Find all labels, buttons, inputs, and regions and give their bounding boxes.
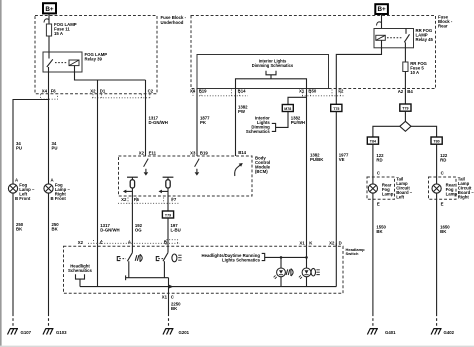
svg-text:PU/WH: PU/WH [291,120,305,125]
BCM output element 1 [127,176,138,178]
switch 1 mechanical link E [117,257,120,261]
svg-text:Lamp: Lamp [446,192,458,197]
BCM driver switch 1 [144,159,149,167]
BCM internal ground arrow 1 [145,169,147,172]
svg-text:F2: F2 [338,89,344,94]
body control module dashed box [119,156,253,196]
svg-text:D: D [339,240,342,245]
svg-text:PU: PU [52,145,58,150]
headlamp switch dotted connector row [88,240,180,243]
svg-text:D-GN/WH: D-GN/WH [149,120,168,125]
clip hook on B+ wire [377,22,382,26]
svg-text:PU: PU [16,145,22,150]
wire 1382 PU/BK (B50 to switch pin K) [306,89,308,247]
ground G107 [8,329,19,335]
svg-text:PK: PK [200,120,207,125]
svg-text:X1: X1 [299,240,305,245]
wire 197 L-BU (BCM F7 to switch pin B) [167,196,169,211]
schematic reference bracket (DRL) [262,253,265,260]
svg-text:G201: G201 [179,330,190,335]
svg-text:B14: B14 [238,89,246,94]
schematic reference bracket (top) [266,71,276,79]
inline connector T79 (197 L-BU) [162,211,173,218]
svg-text:G401: G401 [385,330,396,335]
inline connector T75 [331,104,342,111]
svg-text:Right: Right [458,195,470,200]
connector X2 dotted row [92,94,151,98]
battery feed B+ (left) [43,3,56,13]
wire 34 PU right branch [48,100,50,184]
headlamp switch connector pin B dotted box [166,240,178,245]
rear fog icon (switch) [172,254,177,262]
front fog icon (switch) [135,254,142,261]
relay 45 link dashes [387,37,402,39]
svg-text:Schematics: Schematics [246,129,270,134]
wire 1550 BK [372,193,374,313]
indicator lamp 2 (rear fog) [306,246,308,268]
relay K39 FOG LAMP Relay 39 box [43,52,82,72]
wire pin C into switch [97,243,99,286]
svg-text:A: A [128,240,131,245]
schematic reference bracket (interior lights dimming, mid) [272,123,276,131]
svg-text:Schematics: Schematics [68,268,92,273]
svg-text:BK: BK [171,306,178,311]
svg-text:PW: PW [238,109,246,114]
svg-text:B: B [15,196,18,201]
svg-text:C: C [377,171,380,176]
junction indicator 2 [305,256,308,259]
wire drop to pin C2 [145,80,147,94]
wire splice bus [373,126,400,137]
svg-text:B19: B19 [199,89,207,94]
relay 45 coil [376,35,386,40]
fuse clip hook [44,19,49,23]
wire 1382 PW (B14 to BCM B14) [235,89,237,157]
wire 1317 D-GN/WH (C2 to BCM E11) [145,94,147,156]
interior lights dimming feed solid box [197,55,329,89]
wire 1650 BK [436,193,438,313]
svg-text:T80: T80 [433,140,439,144]
wire DRL reference to indicators [265,256,307,258]
BCM output element 2 arrow [162,190,168,192]
wire switch feed bus [80,286,336,288]
svg-text:RD: RD [376,157,382,162]
wire pin D riser [335,243,337,246]
svg-text:C2: C2 [148,89,154,94]
svg-text:OG: OG [135,228,142,233]
BCM driver switch 2 [195,159,200,167]
svg-text:X1: X1 [299,89,305,94]
svg-text:Lights Schematics: Lights Schematics [222,257,261,262]
inline connector M78 [282,105,293,112]
svg-text:E: E [377,201,380,206]
wire relay45 switch to fuse 5 [404,48,406,62]
fuse block underhood dashed box [35,16,157,94]
svg-text:G103: G103 [56,330,67,335]
wire 122 RD right [436,144,438,184]
svg-text:BK: BK [52,226,59,231]
battery feed B+ (right) [375,4,388,14]
svg-text:X2: X2 [139,150,145,155]
fuse block rear dashed box [191,16,436,89]
lamp Rear Fog Lamp right [432,184,441,193]
svg-text:D-GN/WH: D-GN/WH [100,228,119,233]
svg-text:Relay 45: Relay 45 [416,37,434,42]
wire B+ to Fuse 11 [48,14,50,24]
svg-text:C: C [441,171,444,176]
svg-text:BK: BK [16,226,23,231]
svg-text:X2: X2 [78,240,84,245]
inline connector T79 rear [400,104,411,111]
connector X4 dotted outline [41,94,58,99]
BCM bottom dotted connector row [118,198,179,204]
svg-text:E: E [441,201,444,206]
wire 250 BK right [48,193,50,313]
svg-text:F6: F6 [51,89,57,94]
svg-text:Underhood: Underhood [161,20,184,25]
wire 2250 BK to G201 [168,293,170,313]
relay 39 coil [69,60,79,66]
tail lamp circuit board right dashed box [429,177,457,199]
svg-text:A2: A2 [398,89,404,94]
svg-text:X2: X2 [90,89,96,94]
svg-text:BK: BK [376,229,383,234]
svg-text:B4: B4 [407,89,413,94]
BCM output element 1 arrow [126,190,132,192]
junction arrow on ground bus [168,284,173,288]
svg-text:B19: B19 [200,150,208,155]
schematic reference bracket (headlight) [76,274,85,286]
wire 1877 PK (B19 to BCM X3 B19) [196,89,198,157]
svg-text:X2: X2 [121,197,127,202]
wire B+ to relay 45 [381,14,383,29]
relay 39 switch contact [48,52,50,59]
svg-text:T79: T79 [165,214,171,218]
switch 2 mechanical link E [156,257,159,261]
wire fuse 5 to pin B4 [404,72,406,89]
inline connector T84 [367,137,378,144]
wire 122 RD left [372,144,374,184]
fuse F5 RR FOG Fuse 5 10A [403,62,408,72]
svg-text:B: B [51,196,54,201]
svg-text:Switch: Switch [346,251,359,256]
svg-text:Dimming Schematics: Dimming Schematics [252,63,294,68]
svg-text:BK: BK [440,229,447,234]
ground G401 [367,329,378,335]
svg-text:Front: Front [19,196,31,201]
svg-text:X2: X2 [329,240,335,245]
svg-text:Front: Front [55,196,67,201]
wire drop to pin D1 [97,80,99,94]
svg-text:(BCM): (BCM) [255,169,268,174]
svg-text:A: A [51,177,54,182]
svg-text:T75: T75 [333,107,339,111]
dotted connector row mid left [193,90,248,96]
wire B4 to T79 rear [404,89,406,105]
BCM output element 2 [163,176,174,178]
wire 250 BK left [12,193,14,313]
ground G402 [431,329,442,335]
wire relay45 coil to F2 [336,40,381,88]
svg-text:X3: X3 [190,150,196,155]
relay K45 RR FOG LAMP Relay 45 box [374,29,414,48]
svg-text:C: C [171,295,174,300]
switch output rail [126,277,169,279]
svg-text:E11: E11 [149,150,157,155]
svg-text:B14: B14 [238,150,246,155]
dotted connector row mid right [302,90,345,96]
fog switch 1 (front) [131,243,133,252]
svg-text:B+: B+ [45,6,54,13]
svg-text:15 A: 15 A [54,31,63,36]
svg-text:X1: X1 [162,295,168,300]
wire 1977 VE (F2 to switch pin D) [335,89,337,105]
svg-text:Rear: Rear [438,23,448,28]
headlamp switch ground exit pin X1 C [168,287,170,294]
svg-text:T79: T79 [402,107,408,111]
svg-text:B: B [164,240,167,245]
wire relay39 coil output bus [75,66,146,80]
svg-text:T84: T84 [370,140,376,144]
svg-text:VE: VE [339,157,345,162]
lamp Rear Fog Lamp left [368,184,377,193]
wire Fuse 11 to Relay 39 [48,36,50,52]
splice diamond [400,121,411,131]
svg-text:B+: B+ [377,6,386,13]
wire T79 to splice diamond [404,111,406,121]
splice branch to M78 [288,97,307,104]
svg-text:X4: X4 [42,89,48,94]
ground G103 [43,329,54,335]
BCM internal ground arrow 2 [196,169,198,172]
fuse F11 FOG LAMP Fuse 11 15A [46,24,51,36]
headlamp switch dashed box [64,246,344,293]
wire M78 to dimming reference [276,112,288,128]
fog switch 2 (rear) [167,243,169,252]
lamp Fog Lamp Right Front [44,184,53,193]
relay 39 link dashes [55,62,68,64]
wire rail to ground bus [168,278,170,287]
svg-text:L-BU: L-BU [171,228,181,233]
lamp Fog Lamp Left Front [8,184,17,193]
front fog icon (indicator) [286,269,293,276]
wire dimmer feed tee [236,79,307,89]
wire 1317 D-GN/WH (D1 to switch pin C) [97,94,99,244]
svg-text:10 A: 10 A [410,70,419,75]
svg-text:PU/BK: PU/BK [310,157,324,162]
svg-text:RD: RD [440,157,446,162]
svg-text:C: C [100,240,103,245]
svg-text:Lamp: Lamp [382,192,394,197]
svg-text:Relay 39: Relay 39 [85,57,103,62]
svg-text:D1: D1 [100,89,106,94]
svg-text:A: A [15,177,18,182]
svg-text:B50: B50 [308,89,316,94]
screen left border edge [0,0,2,347]
svg-text:G402: G402 [444,330,455,335]
wire relay39 output to pin F6 [48,72,50,94]
indicator lamp 1 (front fog) [280,257,282,268]
rear fog icon (indicator) [311,268,315,276]
screen bottom border edge [0,346,474,347]
BCM high-side driver arrow (B14) [235,165,241,176]
relay 45 switch [405,29,407,34]
wire 192 OG (BCM F6 to switch pin A) [131,196,133,243]
wire 34 PU split [13,94,49,184]
svg-text:Left: Left [396,195,404,200]
inline connector T80 [431,137,442,144]
tail lamp circuit board left dashed box [367,177,395,199]
svg-text:G107: G107 [21,330,32,335]
junction indicator 1 [280,256,283,259]
svg-text:M78: M78 [284,107,291,111]
ground G201 [163,329,174,335]
